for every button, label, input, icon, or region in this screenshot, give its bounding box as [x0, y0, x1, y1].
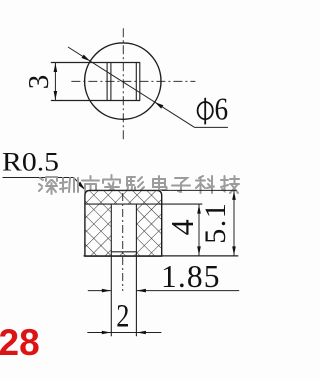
dimension 3: lower arrowhead: [54, 91, 58, 100]
top view: circle outline (diameter 6): [85, 43, 161, 119]
dimension 2: left arrowhead: [102, 331, 111, 335]
dimension 4: lower arrowhead: [197, 246, 201, 255]
section view: slot left edge / extension line: [110, 204, 112, 336]
section view: slot bottom line: [111, 251, 136, 253]
svg-text:28: 28: [0, 322, 40, 363]
svg-text:6: 6: [215, 93, 229, 127]
dimension 1.85: right dimension line segment: [136, 290, 239, 292]
section view: slot right edge / extension line: [135, 204, 137, 336]
section view: body bottom line + extension: [84, 255, 239, 257]
diameter leader: lower-right arrowhead: [155, 102, 164, 109]
diameter label: phi symbol: [198, 98, 213, 125]
section view: cross-hatched body outline: [85, 190, 162, 256]
svg-text:3: 3: [23, 75, 55, 90]
dimension 1.85: left arrowhead: [102, 289, 111, 293]
section view: shoulder line + extension for dim 4: [85, 203, 202, 205]
dimension 5.1: upper arrowhead: [232, 191, 236, 200]
top view: slot right inner edge: [135, 63, 137, 101]
svg-text:5.1: 5.1: [199, 202, 232, 244]
watermark char 7 (zi): [172, 178, 190, 192]
top view: horizontal centerline: [71, 80, 195, 82]
watermark char 6 (dian): [153, 176, 167, 190]
svg-text:R0.5: R0.5: [2, 148, 59, 177]
dimension 3: dimension line: [54, 63, 56, 101]
svg-text:1.85: 1.85: [161, 259, 220, 294]
dimension 4: upper arrowhead: [197, 205, 201, 214]
watermark char 2 (zhen): [60, 178, 78, 192]
watermark char 4 (an): [103, 175, 120, 193]
dimension 5.1: dimension line: [233, 190, 235, 256]
dimension 3: upper arrowhead: [54, 63, 58, 72]
top view: slot left inner edge: [110, 63, 112, 101]
top view: vertical centerline: [122, 28, 124, 142]
dimension 1.85: left dimension line segment: [88, 290, 112, 292]
dimension 4: dimension line: [198, 204, 200, 256]
top view: slot bottom edge / extension line: [51, 100, 140, 102]
dimension 2: dimension line: [87, 332, 161, 334]
section view: slot cavity (white): [111, 204, 136, 252]
watermark char 8 (ke): [196, 176, 214, 193]
radius leader: diagonal segment to corner: [74, 178, 91, 196]
watermark char 5 (biao): [127, 177, 144, 194]
diameter leader: horizontal shoulder: [195, 126, 228, 128]
svg-text:4: 4: [164, 219, 200, 235]
section view: vertical centerline: [122, 193, 124, 291]
top view: slot top edge / extension line: [51, 62, 140, 64]
radius leader: horizontal segment: [3, 177, 74, 179]
watermark char 1 (shen): [39, 177, 57, 194]
watermark char 9 (ji): [221, 176, 239, 193]
diameter leader: diagonal line through circle: [68, 47, 195, 127]
section view: top edge extension for dim 5.1: [162, 189, 237, 191]
top view: slot left outer edge: [106, 63, 108, 101]
svg-text:2: 2: [116, 298, 129, 334]
watermark text band: [39, 175, 239, 194]
diameter leader: upper-left arrowhead: [82, 55, 91, 62]
dimension 5.1: lower arrowhead: [232, 246, 236, 255]
radius leader: arrowhead: [77, 182, 85, 190]
top view: slot right outer edge: [139, 63, 141, 101]
watermark char 3 (shi): [82, 176, 99, 194]
dimension 1.85: right arrowhead: [137, 289, 146, 293]
dimension 2: right arrowhead: [137, 331, 146, 335]
